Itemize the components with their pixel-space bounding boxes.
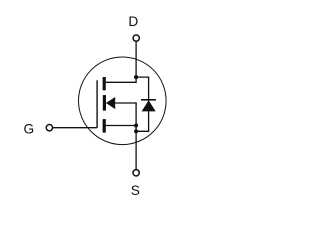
MOSFET Q1 body outline circle xyxy=(79,57,167,145)
wire: source vertical down to terminal xyxy=(135,103,137,169)
svg-text:D: D xyxy=(128,14,138,29)
source channel bar xyxy=(103,119,106,133)
wire: drain lead from terminal to top channel bar xyxy=(106,42,136,82)
body diode D1 cathode bar xyxy=(141,99,156,101)
junction: source node at diode return xyxy=(134,129,138,133)
drain terminal pin D xyxy=(133,35,139,41)
drain channel bar xyxy=(103,77,106,90)
junction: source node at channel wire xyxy=(134,123,138,127)
wire: source horizontal from bottom channel bar xyxy=(106,125,136,127)
wire: gate lead xyxy=(53,127,97,129)
gate terminal pin G xyxy=(46,125,52,131)
gate electrode bar xyxy=(96,80,98,127)
junction: drain node (diode tap) xyxy=(134,75,138,79)
wire: body diode branch (drain node to source node) xyxy=(136,77,149,131)
body diode D1 anode triangle xyxy=(142,100,156,111)
body arrow (N-channel, pointing to channel) xyxy=(106,97,115,109)
wire: body tap to source line xyxy=(115,103,136,105)
source terminal pin S xyxy=(133,170,139,176)
svg-text:G: G xyxy=(23,121,34,136)
svg-text:S: S xyxy=(131,183,140,198)
body channel bar xyxy=(103,95,106,111)
